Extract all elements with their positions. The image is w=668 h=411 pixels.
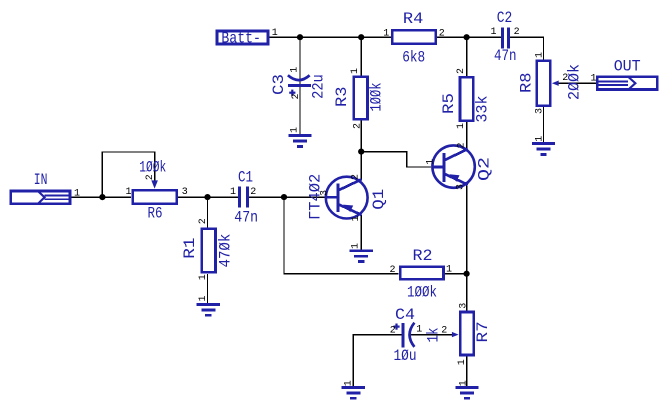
- svg-text:1: 1: [591, 74, 597, 85]
- connector OUT: [596, 76, 657, 90]
- wire Q2 emitter to R7 pin3: [466, 185, 468, 311]
- ground (R8): [532, 144, 555, 155]
- wire feedback node to R2 pin2: [284, 197, 399, 274]
- node junction Q1 collector / R3 / Q2 base: [358, 149, 364, 155]
- svg-text:2: 2: [562, 73, 568, 84]
- svg-text:1ØØk: 1ØØk: [368, 83, 386, 112]
- wire top rail to C3 pin1: [299, 37, 301, 85]
- svg-text:2: 2: [353, 123, 364, 129]
- wire R8 wiper to OUT pin1: [558, 82, 596, 84]
- wire R4 pin2 to C2 pin1: [437, 36, 501, 38]
- resistor R5: [460, 77, 473, 120]
- ground (C4): [342, 388, 365, 399]
- wire R6 pin3 to C1 pin1: [178, 196, 238, 198]
- node junction input: [99, 194, 105, 200]
- wire Batt- to R4 pin1 (top rail): [270, 36, 392, 38]
- capacitor C3 (electrolytic): [288, 75, 311, 96]
- wire top rail to R5 pin2: [466, 37, 468, 76]
- svg-text:1: 1: [350, 68, 361, 74]
- capacitor C1: [240, 186, 248, 207]
- ground (C3): [288, 136, 311, 147]
- svg-text:R6: R6: [148, 205, 163, 223]
- svg-text:1: 1: [126, 187, 132, 198]
- wire R8 pin3 to ground: [543, 106, 545, 143]
- svg-text:3: 3: [458, 303, 469, 309]
- svg-text:R1: R1: [181, 237, 199, 258]
- svg-text:1k: 1k: [424, 328, 442, 343]
- wire IN pin1 to R6 pin1: [72, 196, 132, 198]
- svg-text:C1: C1: [238, 168, 253, 186]
- svg-text:3: 3: [456, 184, 467, 190]
- ground (R1): [197, 305, 220, 316]
- svg-text:1Øu: 1Øu: [394, 347, 417, 365]
- svg-text:R8: R8: [518, 73, 536, 94]
- transistor Q2 (PNP): [431, 145, 474, 187]
- svg-text:1: 1: [426, 159, 437, 165]
- svg-text:2: 2: [514, 27, 520, 38]
- wire R7 pin1 to ground: [466, 356, 468, 386]
- svg-text:6k8: 6k8: [402, 48, 425, 66]
- svg-text:1: 1: [457, 359, 468, 365]
- resistor R3: [354, 77, 368, 119]
- svg-text:1: 1: [416, 325, 422, 336]
- svg-text:1ØØk: 1ØØk: [139, 158, 166, 176]
- wire Q1 collector node to Q2 base: [361, 152, 431, 167]
- svg-text:R5: R5: [440, 93, 458, 114]
- svg-text:47n: 47n: [234, 208, 258, 226]
- svg-text:2: 2: [439, 28, 445, 39]
- node junction top rail R5: [464, 34, 470, 40]
- svg-text:C3: C3: [270, 74, 288, 95]
- transistor Q1 (PNP GT402): [325, 177, 367, 219]
- wire Q1 emitter to ground: [360, 215, 362, 250]
- svg-text:1: 1: [74, 188, 80, 199]
- svg-text:IN: IN: [34, 171, 48, 189]
- svg-text:1: 1: [343, 380, 354, 386]
- ground (Q1 emitter): [350, 251, 373, 262]
- connector IN: [11, 191, 71, 205]
- svg-text:33k: 33k: [474, 96, 492, 123]
- svg-text:3: 3: [320, 190, 331, 196]
- svg-text:1: 1: [351, 243, 362, 249]
- node junction top rail R3: [358, 34, 364, 40]
- capacitor C2: [503, 27, 509, 48]
- svg-text:1: 1: [491, 27, 497, 38]
- svg-text:1: 1: [198, 295, 209, 301]
- svg-text:1: 1: [535, 136, 546, 142]
- resistor R1: [202, 229, 216, 273]
- node junction top rail C3: [297, 34, 303, 40]
- resistor R2: [400, 267, 443, 279]
- wire R3 pin2 to node collector Q1: [360, 121, 362, 152]
- wire C3 pin2 to ground: [299, 86, 301, 134]
- svg-text:1: 1: [230, 187, 236, 198]
- svg-text:2: 2: [145, 174, 156, 180]
- potentiometer R7: [452, 312, 474, 355]
- svg-text:R4: R4: [403, 10, 423, 28]
- svg-text:C2: C2: [497, 9, 513, 27]
- svg-text:47Øk: 47Øk: [217, 234, 235, 268]
- svg-text:2: 2: [441, 326, 447, 337]
- svg-text:1: 1: [535, 52, 546, 58]
- svg-text:2: 2: [351, 174, 362, 180]
- svg-text:1: 1: [290, 67, 301, 73]
- svg-text:1: 1: [456, 123, 467, 129]
- svg-text:Q1: Q1: [370, 189, 388, 210]
- svg-text:2: 2: [390, 326, 396, 337]
- wire C4 pin2 to ground: [353, 335, 401, 387]
- svg-text:22u: 22u: [310, 74, 328, 99]
- wire R2 pin1 to emitter node: [445, 273, 467, 275]
- svg-text:3: 3: [182, 187, 188, 198]
- svg-text:1: 1: [290, 127, 301, 133]
- svg-text:2: 2: [456, 68, 467, 74]
- ground (R7): [455, 388, 478, 399]
- capacitor C4 (electrolytic): [393, 323, 414, 348]
- svg-text:R7: R7: [474, 321, 492, 342]
- svg-text:1: 1: [383, 28, 389, 39]
- svg-text:1: 1: [198, 274, 209, 280]
- svg-text:2: 2: [291, 93, 302, 99]
- svg-text:R2: R2: [413, 247, 433, 265]
- svg-text:2: 2: [390, 265, 396, 276]
- wire C2 pin2 to R8 pin1: [510, 37, 544, 60]
- wire R1 pin1 to ground: [207, 274, 209, 304]
- wire C1 pin2 to Q1 base: [249, 196, 325, 198]
- wire input node loop to R6 wiper: [102, 152, 154, 197]
- svg-text:1: 1: [351, 215, 362, 221]
- node junction Q2 emitter / R2 / R7: [464, 271, 470, 277]
- wire R5 pin1 to Q2 collector: [466, 121, 468, 149]
- wire C4 pin1 to R7 wiper: [410, 334, 452, 336]
- svg-text:R3: R3: [333, 87, 351, 108]
- svg-text:OUT: OUT: [614, 58, 641, 76]
- svg-text:3: 3: [535, 108, 546, 114]
- wire top rail to R3 pin1: [360, 37, 362, 75]
- node junction Q1 base / feedback: [281, 194, 287, 200]
- svg-text:C4: C4: [395, 306, 415, 324]
- connector Batt-: [217, 31, 268, 44]
- potentiometer R8: [537, 61, 559, 106]
- svg-text:Batt-: Batt-: [221, 30, 261, 48]
- svg-text:1: 1: [458, 380, 469, 386]
- wire Q1 collector stub: [360, 152, 362, 180]
- svg-text:1: 1: [272, 28, 278, 39]
- svg-text:Q2: Q2: [476, 157, 494, 181]
- resistor R4: [392, 30, 435, 44]
- svg-text:2: 2: [250, 187, 256, 198]
- potentiometer R6: [133, 180, 177, 203]
- wire node to R1 pin2: [207, 197, 209, 227]
- svg-text:1ØØk: 1ØØk: [407, 283, 437, 301]
- svg-text:2: 2: [198, 218, 209, 224]
- svg-text:47n: 47n: [494, 47, 517, 65]
- svg-text:1: 1: [446, 265, 452, 276]
- node junction R1: [204, 194, 210, 200]
- svg-text:2: 2: [457, 142, 468, 148]
